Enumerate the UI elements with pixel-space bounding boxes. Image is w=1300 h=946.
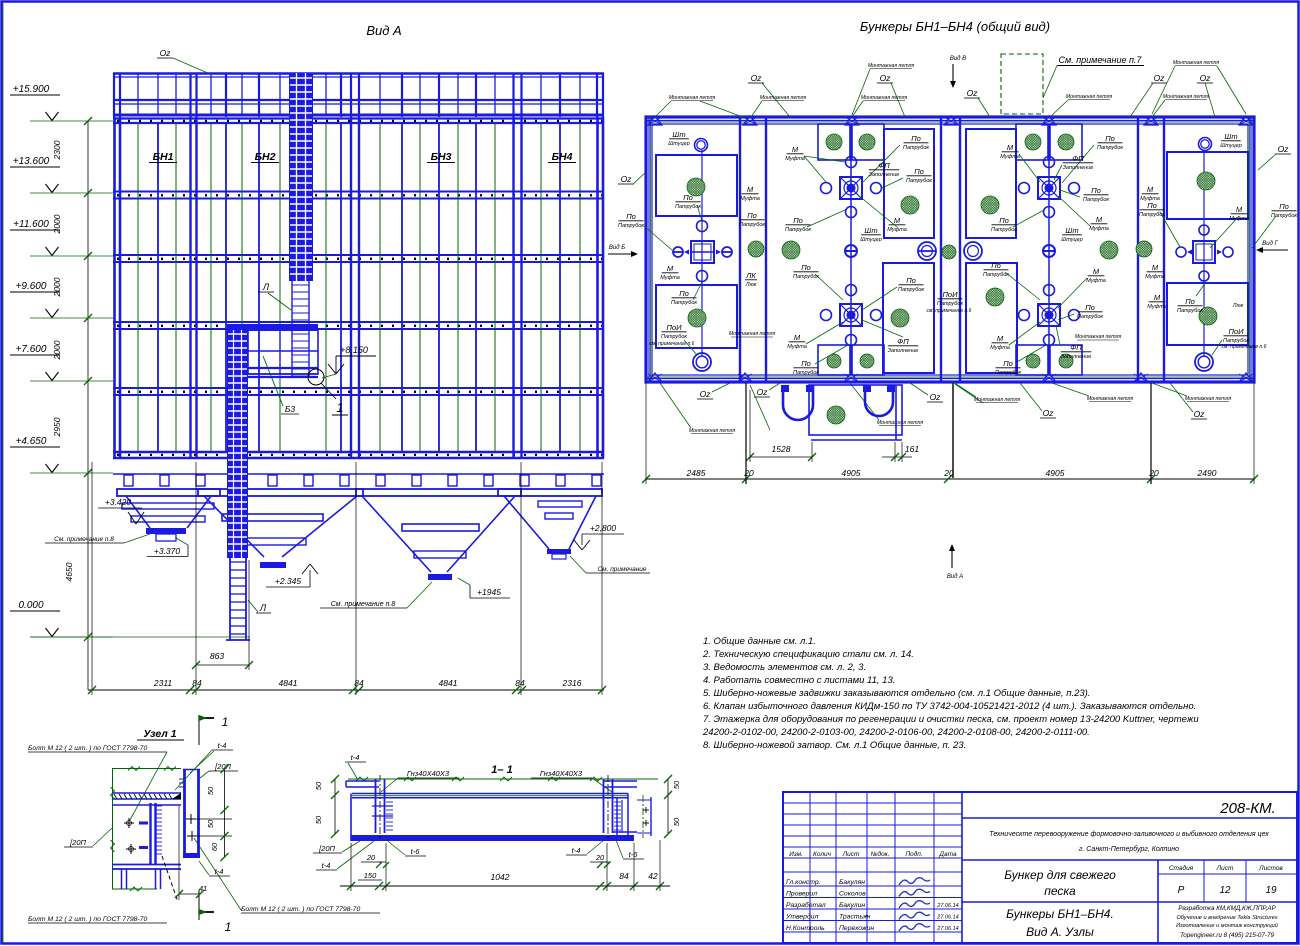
support stub band under wall <box>113 473 604 475</box>
middle corridor symbols <box>918 242 936 260</box>
svg-text:8. Шиберно-ножевой затвор. См.: 8. Шиберно-ножевой затвор. См. л.1 Общие… <box>703 740 966 751</box>
node1 right bolts <box>186 818 196 820</box>
1-1 left tube <box>375 779 377 833</box>
svg-text:Муфта: Муфта <box>660 275 680 281</box>
svg-text:+1945: +1945 <box>477 587 501 597</box>
svg-text:6. Клапан избыточного давления: 6. Клапан избыточного давления КИДм-150 … <box>703 701 1196 712</box>
svg-text:М: М <box>1007 143 1014 152</box>
svg-text:По: По <box>1105 134 1115 143</box>
title block outer <box>783 792 1297 943</box>
valve with X bottom <box>1038 304 1060 326</box>
bottom small boxes with green circles <box>1050 345 1082 375</box>
svg-text:По: По <box>914 167 924 176</box>
svg-text:Подп.: Подп. <box>905 850 922 858</box>
svg-text:20: 20 <box>366 853 376 862</box>
svg-text:М: М <box>1154 293 1161 302</box>
bottom open ladder <box>229 558 231 640</box>
svg-text:Патрубок: Патрубок <box>1271 213 1297 219</box>
svg-text:песка: песка <box>1044 884 1076 898</box>
1-1 right end assembly <box>616 797 618 835</box>
svg-text:Монтажная петля: Монтажная петля <box>729 331 776 337</box>
svg-text:t-4: t-4 <box>322 861 331 870</box>
svg-text:1. Общие данные см. л.1.: 1. Общие данные см. л.1. <box>703 636 816 647</box>
redraw lower cage ladder above hopper lines <box>227 330 248 558</box>
svg-text:Патрубок: Патрубок <box>785 227 811 233</box>
bottom appendage structure <box>783 385 813 420</box>
svg-text:Оz: Оz <box>1278 144 1290 154</box>
svg-text:Изготовление и монтаж конструк: Изготовление и монтаж конструкций <box>1176 922 1278 929</box>
1-1 left end plate <box>346 780 379 782</box>
svg-text:[20П: [20П <box>69 838 86 847</box>
svg-text:50: 50 <box>206 786 215 795</box>
svg-text:27.06.14: 27.06.14 <box>936 915 958 921</box>
svg-text:1528: 1528 <box>772 444 791 454</box>
svg-text:Оz: Оz <box>621 174 633 184</box>
svg-text:4. Работать совместно с листам: 4. Работать совместно с листами 11, 13. <box>703 675 895 686</box>
signatures <box>899 878 930 885</box>
svg-text:Монтажная петля: Монтажная петля <box>760 95 807 101</box>
elevation v mark hopper2 <box>302 564 310 574</box>
svg-text:2485: 2485 <box>686 468 706 478</box>
svg-text:Муфта: Муфта <box>1145 274 1165 280</box>
1-1 right end plate <box>603 780 637 782</box>
node1 hatching right of centre <box>156 805 162 807</box>
svg-text:М: М <box>1236 205 1243 214</box>
svg-text:+3.420: +3.420 <box>105 497 132 507</box>
svg-text:Узел 1: Узел 1 <box>143 728 176 740</box>
svg-text:2316: 2316 <box>562 678 582 688</box>
svg-text:24200-2-0102-00, 24200-2-0103-: 24200-2-0102-00, 24200-2-0103-00, 24200-… <box>702 727 1090 738</box>
svg-text:ФП: ФП <box>897 337 909 346</box>
svg-text:ФП: ФП <box>1070 343 1082 352</box>
svg-text:161: 161 <box>905 444 919 454</box>
small circle above valve <box>697 221 708 232</box>
svg-text:20: 20 <box>743 468 754 478</box>
svg-text:М: М <box>667 264 674 273</box>
svg-text:См. примечание п.8: См. примечание п.8 <box>331 601 396 608</box>
bottom dimension chain of view A <box>88 689 604 691</box>
compartment centre pipe line <box>850 124 852 375</box>
svg-text:Патрубок: Патрубок <box>906 178 932 184</box>
dim 1528 <box>750 456 812 458</box>
svg-text:Оz: Оz <box>751 73 763 83</box>
svg-text:Монтажная петля: Монтажная петля <box>1163 94 1210 100</box>
svg-text:+7.600: +7.600 <box>16 344 47 355</box>
title block right verticals <box>1157 860 1159 943</box>
svg-text:Патрубок: Патрубок <box>903 145 929 151</box>
railing band top <box>113 72 604 75</box>
1-1 bottom dimension chain <box>340 885 670 887</box>
svg-text:Бункер для свежего: Бункер для свежего <box>1004 868 1116 882</box>
small circle below valve <box>697 271 708 282</box>
svg-text:[20П: [20П <box>214 762 231 771</box>
svg-text:Р: Р <box>1178 885 1185 896</box>
green circle left bunker top <box>687 178 705 196</box>
svg-text:Вид А: Вид А <box>366 23 401 38</box>
node1 weld ticks channel top <box>179 778 184 780</box>
svg-text:t-6: t-6 <box>411 847 421 856</box>
svg-text:Вид А. Узлы: Вид А. Узлы <box>1026 925 1094 939</box>
1-1 vertical dims 50 50 left <box>334 779 336 834</box>
right bunker valve plain <box>1193 241 1215 263</box>
compartment centre pipe line <box>1048 124 1050 375</box>
svg-text:Монтажная петля: Монтажная петля <box>669 95 716 101</box>
svg-text:По: По <box>626 212 636 221</box>
svg-text:20: 20 <box>595 853 605 862</box>
svg-text:Гнз40Х40Х3: Гнз40Х40Х3 <box>540 769 583 778</box>
side circles of valves <box>821 183 832 194</box>
node1 flange rows <box>113 792 181 794</box>
circles along centre line <box>846 157 857 168</box>
svg-text:По: По <box>999 216 1009 225</box>
svg-text:Штуцер: Штуцер <box>1061 237 1083 243</box>
svg-text:Монтажная петля: Монтажная петля <box>877 420 924 426</box>
plan bottom dimension chain <box>646 478 1254 480</box>
svg-text:Патрубок: Патрубок <box>1083 197 1109 203</box>
svg-text:Н.Контроль: Н.Контроль <box>786 925 825 932</box>
svg-text:Штуцер: Штуцер <box>1220 143 1242 149</box>
1-1 channel beam body <box>352 793 628 795</box>
svg-text:Разработал: Разработал <box>786 901 826 909</box>
svg-text:60: 60 <box>210 842 219 851</box>
svg-text:По: По <box>801 263 811 272</box>
svg-text:5. Шиберно-ножевые задвижки за: 5. Шиберно-ножевые задвижки заказываются… <box>703 688 1090 699</box>
svg-text:50: 50 <box>672 817 681 826</box>
svg-text:27.06.14: 27.06.14 <box>936 903 958 909</box>
svg-text:t-4: t-4 <box>218 741 227 750</box>
lower caged ladder from platform <box>227 330 248 558</box>
svg-text:Люк: Люк <box>1232 303 1244 309</box>
svg-text:Оz: Оz <box>930 392 942 402</box>
svg-text:Монтажная петля: Монтажная петля <box>1087 396 1134 402</box>
svg-text:7. Этажерка для оборудования п: 7. Этажерка для оборудования по регенера… <box>703 714 1199 725</box>
svg-text:Оz: Оz <box>160 48 172 58</box>
node1 dashed diagonal <box>162 856 178 902</box>
wall intermediate verticals <box>157 123 159 452</box>
svg-text:2300: 2300 <box>52 140 62 160</box>
svg-text:Муфта: Муфта <box>1229 216 1249 222</box>
column extension lines down to dimension line <box>91 462 93 695</box>
comp3 green circle reposition patch <box>988 306 1012 330</box>
1-1 green cut line top with breaks <box>348 778 658 780</box>
svg-text:Проверил: Проверил <box>786 891 817 898</box>
svg-text:Обучение и внедрение Tekla Str: Обучение и внедрение Tekla Structures <box>1176 915 1277 921</box>
svg-text:Муфта: Муфта <box>1140 196 1160 202</box>
dashed rectangle note 7 <box>1001 54 1043 114</box>
svg-text:2000: 2000 <box>52 340 62 360</box>
svg-text:№док.: №док. <box>870 850 889 858</box>
svg-text:Штуцер: Штуцер <box>860 237 882 243</box>
svg-text:1: 1 <box>225 920 232 934</box>
svg-text:Дата: Дата <box>938 851 957 858</box>
svg-text:По: По <box>679 289 689 298</box>
svg-text:Оz: Оz <box>1043 408 1055 418</box>
upper caged ladder <box>289 73 313 281</box>
svg-text:Муфта: Муфта <box>1089 226 1109 232</box>
svg-text:150: 150 <box>364 871 377 880</box>
svg-text:[20П: [20П <box>318 844 335 853</box>
svg-text:см. примечание п.6: см. примечание п.6 <box>927 308 972 314</box>
svg-text:863: 863 <box>210 651 224 661</box>
vertical dimension chain line <box>87 121 89 690</box>
free green circles <box>1136 241 1152 257</box>
svg-text:Муфта: Муфта <box>787 344 807 350</box>
svg-text:t-4: t-4 <box>351 753 360 762</box>
svg-text:19: 19 <box>1265 885 1277 896</box>
svg-text:Муфта: Муфта <box>1000 154 1020 160</box>
svg-text:Заполнение: Заполнение <box>1063 165 1094 171</box>
section cut mark 1 bottom <box>198 890 200 920</box>
svg-text:М: М <box>747 185 754 194</box>
svg-text:t-4: t-4 <box>215 867 224 876</box>
svg-text:ПоИ: ПоИ <box>943 290 959 299</box>
svg-text:Оz: Оz <box>1194 409 1206 419</box>
left bunker valve (gate) <box>691 241 714 263</box>
small top boxes with green circles <box>818 124 850 160</box>
svg-text:По: По <box>793 216 803 225</box>
svg-text:Листов: Листов <box>1258 865 1283 872</box>
svg-text:Патрубок: Патрубок <box>898 287 924 293</box>
Vid A arrow bottom of plan <box>951 546 953 568</box>
svg-text:Болт М 12 ( 2 шт. ) по ГОСТ: Болт М 12 ( 2 шт. ) по ГОСТ 7798-70 <box>28 916 147 923</box>
svg-text:84: 84 <box>354 678 364 688</box>
svg-text:Патрубок: Патрубок <box>1077 314 1103 320</box>
svg-text:Муфта: Муфта <box>1147 304 1167 310</box>
svg-text:Бункеры БН1–БН4.: Бункеры БН1–БН4. <box>1006 907 1114 921</box>
svg-text:+9.600: +9.600 <box>16 281 47 292</box>
svg-text:По: По <box>1091 186 1101 195</box>
svg-text:Л: Л <box>262 282 270 292</box>
svg-text:Патрубок: Патрубок <box>739 222 765 228</box>
wall horizontal belts with stud dots <box>113 191 604 193</box>
svg-text:ЛК: ЛК <box>745 271 756 280</box>
svg-text:БН1: БН1 <box>153 151 174 163</box>
svg-text:Патрубок: Патрубок <box>1177 308 1203 314</box>
dim 161 <box>882 456 912 458</box>
svg-text:Шт: Шт <box>1224 132 1237 141</box>
svg-text:Соколов: Соколов <box>839 891 866 898</box>
svg-text:ФП: ФП <box>1072 154 1084 163</box>
1-1 vertical dims right <box>667 779 669 834</box>
node1 right dimension column <box>224 769 226 857</box>
svg-text:+15.900: +15.900 <box>13 84 50 95</box>
svg-text:Шт: Шт <box>1065 226 1078 235</box>
svg-text:Оz: Оz <box>700 389 712 399</box>
svg-text:Topengineer.ru 8 (495) 215-07: Topengineer.ru 8 (495) 215-07-79 <box>1180 932 1275 939</box>
svg-text:Техническте перевооружение фор: Техническте перевооружение формовочно-за… <box>989 830 1269 838</box>
svg-text:1042: 1042 <box>491 872 510 882</box>
small top boxes with green circles <box>1050 124 1082 160</box>
dim 863 <box>196 664 249 666</box>
svg-text:Муфта: Муфта <box>1086 278 1106 284</box>
PoI ring left <box>693 353 711 371</box>
svg-text:3. Ведомость элементов см. л.: 3. Ведомость элементов см. л. 2, 3. <box>703 662 866 673</box>
MP labels bottom inside leaders <box>750 385 770 430</box>
svg-text:ПоИ: ПоИ <box>1229 327 1245 336</box>
svg-text:Колич: Колич <box>813 851 832 858</box>
svg-text:+11.600: +11.600 <box>13 219 49 230</box>
svg-text:Муфта: Муфта <box>887 227 907 233</box>
free green circles <box>748 241 764 257</box>
bottom small boxes with green circles <box>818 345 850 375</box>
side circles of valves <box>1069 183 1080 194</box>
svg-text:См. примечание: См. примечание <box>597 566 646 573</box>
svg-text:50: 50 <box>672 780 681 789</box>
svg-text:М: М <box>1147 185 1154 194</box>
valve with X bottom <box>840 304 862 326</box>
svg-text:1– 1: 1– 1 <box>491 764 512 776</box>
svg-text:4841: 4841 <box>279 678 298 688</box>
1-1 weld ticks at left tube <box>386 801 393 803</box>
svg-text:Оz: Оz <box>1154 73 1166 83</box>
svg-text:Разработка КМ,КМД,КЖ,ППР,АР: Разработка КМ,КМД,КЖ,ППР,АР <box>1178 904 1276 912</box>
svg-text:По: По <box>1085 303 1095 312</box>
svg-text:Вид Г: Вид Г <box>1262 241 1278 247</box>
svg-text:М: М <box>1152 263 1159 272</box>
svg-text:Патрубок: Патрубок <box>1097 145 1123 151</box>
svg-text:Патрубок: Патрубок <box>618 223 644 229</box>
svg-text:По: По <box>683 193 693 202</box>
svg-text:+4.650: +4.650 <box>16 436 47 447</box>
node1 vertical channel right <box>183 769 186 857</box>
svg-text:Бакулян: Бакулян <box>839 879 865 886</box>
svg-text:12: 12 <box>1219 885 1231 896</box>
svg-text:Патрубок: Патрубок <box>671 300 697 306</box>
svg-text:Болт М 12 ( 2 шт. ) по ГОСТ: Болт М 12 ( 2 шт. ) по ГОСТ 7798-70 <box>28 745 147 752</box>
plan outer border heavy <box>646 117 1254 382</box>
svg-text:См. примечание п.7: См. примечание п.7 <box>1059 55 1143 65</box>
svg-text:Б3: Б3 <box>285 404 296 414</box>
node1 dim 41 <box>179 893 200 895</box>
svg-text:t-6: t-6 <box>629 850 639 859</box>
green circles in side panels <box>981 196 999 214</box>
side tall panel top <box>884 129 934 238</box>
svg-text:М: М <box>794 333 801 342</box>
svg-text:2490: 2490 <box>1197 468 1217 478</box>
svg-text:208-КМ.: 208-КМ. <box>1219 800 1276 817</box>
svg-text:М: М <box>1093 267 1100 276</box>
svg-text:См. примечание п.8: См. примечание п.8 <box>54 536 114 543</box>
svg-text:По: По <box>906 276 916 285</box>
svg-text:Монтажная петля: Монтажная петля <box>1075 334 1122 340</box>
svg-text:84: 84 <box>515 678 525 688</box>
svg-text:Л: Л <box>259 603 267 613</box>
svg-text:Монтажная петля: Монтажная петля <box>974 397 1021 403</box>
section cut mark 1 top <box>198 715 200 745</box>
svg-text:По: По <box>1279 202 1289 211</box>
svg-text:+2.345: +2.345 <box>275 576 302 586</box>
svg-text:Монтажная петля: Монтажная петля <box>1185 396 1232 402</box>
svg-text:4650: 4650 <box>64 562 74 581</box>
hopper 2 <box>198 489 363 496</box>
svg-text:Муфта: Муфта <box>990 345 1010 351</box>
node1 bolts cross marks <box>124 822 134 824</box>
1-1 weld ticks at right tube <box>614 801 621 803</box>
svg-text:0.000: 0.000 <box>18 600 43 611</box>
svg-text:Заполнение: Заполнение <box>1061 354 1092 360</box>
svg-text:+3.370: +3.370 <box>154 546 181 556</box>
svg-text:50: 50 <box>206 819 215 828</box>
hopper 4 <box>498 489 602 496</box>
lifting loop marks on top and bottom edges <box>648 116 662 125</box>
left bunker pipe centreline <box>701 150 703 356</box>
plan internal dividers <box>739 117 741 382</box>
title block left table horizontals <box>783 802 962 804</box>
svg-text:По: По <box>911 134 921 143</box>
valve with X top <box>840 177 862 199</box>
svg-text:1: 1 <box>222 715 229 729</box>
svg-text:см. примечание п.6: см. примечание п.6 <box>1222 344 1267 350</box>
svg-text:Люк: Люк <box>745 282 757 288</box>
svg-text:50: 50 <box>314 815 323 824</box>
svg-text:Патрубок: Патрубок <box>937 301 963 307</box>
1-1 sub dims 20 <box>379 861 386 863</box>
svg-text:2000: 2000 <box>52 214 62 234</box>
svg-text:41: 41 <box>199 884 207 893</box>
svg-text:2. Техническую спецификацию ст: 2. Техническую спецификацию стали см. л.… <box>702 649 914 660</box>
svg-text:Утвердил: Утвердил <box>785 913 819 921</box>
svg-text:По: По <box>747 211 757 220</box>
node1 green cut boundary <box>112 768 181 770</box>
svg-text:М: М <box>894 216 901 225</box>
svg-text:Бакулин: Бакулин <box>839 902 865 909</box>
svg-text:Трастьян: Трастьян <box>839 914 871 921</box>
right bunker PoI ring <box>1195 353 1213 371</box>
svg-text:Патрубок: Патрубок <box>983 272 1009 278</box>
node1 weld triangle <box>172 793 181 799</box>
left bunker top panel <box>656 155 737 216</box>
svg-text:Вид А: Вид А <box>947 574 963 580</box>
svg-text:Бункеры БН1–БН4 (общий вид): Бункеры БН1–БН4 (общий вид) <box>860 19 1050 34</box>
svg-text:Муфта: Муфта <box>785 156 805 162</box>
valve with X top <box>1038 177 1060 199</box>
circles along centre line <box>1044 157 1055 168</box>
green circle left bunker bottom <box>688 309 706 327</box>
svg-text:По: По <box>1003 359 1013 368</box>
svg-text:Вид Б: Вид Б <box>609 245 625 251</box>
svg-text:ПоИ: ПоИ <box>667 323 683 332</box>
right bunker panels <box>1167 152 1248 219</box>
svg-text:Болт М 12 ( 2 шт. ) по ГОСТ: Болт М 12 ( 2 шт. ) по ГОСТ 7798-70 <box>241 906 360 913</box>
svg-text:Заполнение: Заполнение <box>869 172 900 178</box>
green circles in side panels <box>901 196 919 214</box>
svg-text:Патрубок: Патрубок <box>793 370 819 376</box>
svg-text:20: 20 <box>1148 468 1159 478</box>
svg-text:1: 1 <box>336 400 343 415</box>
svg-text:г. Санкт-Петербург, Колпино: г. Санкт-Петербург, Колпино <box>1079 845 1179 853</box>
mid open ladder <box>291 281 293 330</box>
svg-text:БН2: БН2 <box>255 151 276 163</box>
svg-text:Патрубок: Патрубок <box>995 370 1021 376</box>
side tall panel bottom <box>883 263 934 373</box>
svg-text:Патрубок: Патрубок <box>991 227 1017 233</box>
1-1 right tube <box>603 779 605 833</box>
svg-text:Шт: Шт <box>864 226 877 235</box>
node1 bolt extension lines <box>196 818 232 820</box>
side tall panel top <box>966 129 1016 238</box>
railing posts <box>137 73 139 115</box>
right bunker green circles <box>1197 172 1215 190</box>
svg-text:4905: 4905 <box>842 468 861 478</box>
platform at +8.150 <box>227 324 318 328</box>
svg-text:2950: 2950 <box>52 417 62 437</box>
detail circle 1 on platform corner <box>308 369 324 385</box>
title block left table verticals <box>809 792 811 943</box>
svg-text:Изм.: Изм. <box>789 851 803 858</box>
svg-text:Оz: Оz <box>880 73 892 83</box>
svg-text:50: 50 <box>314 781 323 790</box>
left bunker Sht circle <box>695 139 708 152</box>
